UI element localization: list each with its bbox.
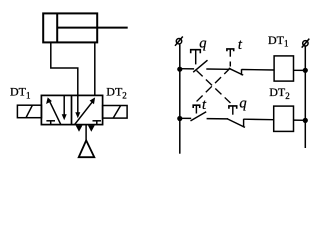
svg-text:DT2: DT2 [269,85,290,101]
svg-text:t: t [202,97,207,113]
svg-text:t: t [238,37,243,53]
svg-text:DT1: DT1 [268,33,289,49]
svg-text:DT1: DT1 [10,85,31,101]
svg-text:q: q [239,95,246,111]
svg-text:DT2: DT2 [106,85,127,101]
svg-text:q: q [199,36,206,52]
